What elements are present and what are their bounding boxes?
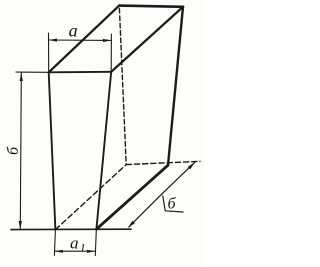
dimension a: dimension line [49,39,111,41]
dimension a1: right extension line [95,230,96,256]
hidden edge bottom-back BBL-BBR + dashed extension line [126,161,200,164]
dimension a: left extension line [48,33,50,72]
edge top-left diagonal FTL-BTL [49,6,120,73]
svg-text:б: б [5,146,22,155]
edge top-right diagonal FTR-BTR [111,7,183,72]
arrowhead a left [49,39,57,42]
edge front-top FTL-FTR [49,71,111,74]
edge front-right FTR-FBR [96,72,111,229]
bottom horizontal line (extension + front-bottom edge FBL-FBR + extension) [11,228,131,230]
dimension a1: dimension line [55,250,95,252]
arrowhead b-right lower (points down-left) [128,221,135,228]
dimension a1: left extension line [54,230,55,255]
arrowhead b-right upper (points up-right) [188,162,195,169]
edge back-top BTL-BTR [119,6,183,7]
arrowhead a right [103,39,111,42]
arrowhead a1 left [55,250,63,253]
svg-text:б: б [168,196,177,213]
arrowhead a1 right [87,250,95,253]
dimension a: right extension line [110,34,112,72]
edge back-right BTR-BBR [168,7,183,165]
dimension b-right: label leader/shelf [163,196,183,212]
dimension b-left: top extension line [16,71,49,73]
edge front-left FTL-FBL [49,72,56,229]
edge bottom-right diagonal FBR-BBR (thick) [96,165,168,229]
hidden edge back-left vertical BTL-BBL (dashed) [119,9,126,165]
hidden edge bottom-left diagonal FBL-BBL (dashed) [55,165,126,230]
svg-text:a: a [69,20,78,40]
dimension b-right: dimension line [129,162,195,227]
arrowhead b-left bottom [19,221,22,229]
arrowhead b-left top [20,73,23,81]
dimension b-left: dimension line [20,73,21,229]
